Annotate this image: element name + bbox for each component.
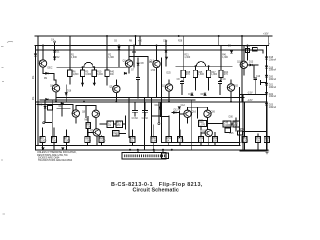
svg-text:C4 82: C4 82 <box>142 118 149 120</box>
svg-text:D10: D10 <box>155 105 160 107</box>
svg-text:100mA: 100mA <box>269 78 277 81</box>
svg-text:C12: C12 <box>181 105 186 107</box>
svg-text:100mA: 100mA <box>269 106 277 109</box>
svg-text:MB: MB <box>39 105 43 107</box>
svg-text:Q17: Q17 <box>202 131 207 133</box>
svg-text:1,800: 1,800 <box>198 74 204 76</box>
svg-text:PG: PG <box>33 96 35 100</box>
svg-text:1,300: 1,300 <box>222 57 228 59</box>
svg-text:Q13: Q13 <box>150 61 155 63</box>
svg-text:-1.5V: -1.5V <box>247 93 253 95</box>
svg-text:D12: D12 <box>59 106 64 108</box>
svg-text:1,300: 1,300 <box>184 57 190 59</box>
svg-text:TRANSISTORS ARE DEC2894: TRANSISTORS ARE DEC2894 <box>38 159 73 162</box>
svg-text:100mA: 100mA <box>269 86 277 89</box>
svg-text:D30: D30 <box>229 117 234 119</box>
svg-text:2,200: 2,200 <box>242 141 248 143</box>
svg-text:7,500: 7,500 <box>85 141 91 143</box>
svg-text:1,800: 1,800 <box>211 74 217 76</box>
svg-text:1K: 1K <box>167 141 170 143</box>
svg-text:3,000: 3,000 <box>97 74 103 76</box>
svg-text:D14: D14 <box>188 94 193 96</box>
svg-text:DEC: DEC <box>48 67 53 69</box>
svg-text:1,500: 1,500 <box>41 141 47 143</box>
svg-text:+10V: +10V <box>263 34 269 36</box>
svg-text:100mA: 100mA <box>269 95 277 98</box>
svg-text:D11: D11 <box>174 110 179 112</box>
svg-text:C10: C10 <box>256 76 261 78</box>
svg-text:D13: D13 <box>249 61 254 63</box>
svg-text:1.5K: 1.5K <box>151 70 156 72</box>
svg-text:Q26: Q26 <box>211 112 216 114</box>
svg-text:3.9K: 3.9K <box>152 141 157 143</box>
svg-text:100mA: 100mA <box>269 69 277 72</box>
svg-text:R56: R56 <box>240 129 245 131</box>
svg-text:Q18: Q18 <box>237 61 242 63</box>
svg-text:D16: D16 <box>67 91 72 93</box>
svg-text:Q14: Q14 <box>162 85 167 87</box>
svg-text:7,500: 7,500 <box>64 141 70 143</box>
svg-text:-1.8V: -1.8V <box>247 100 253 102</box>
svg-text:D25: D25 <box>167 72 172 74</box>
svg-text:100mA: 100mA <box>269 59 277 62</box>
svg-text:3,000: 3,000 <box>85 74 91 76</box>
svg-text:C3 82: C3 82 <box>132 118 139 120</box>
svg-text:1,070: 1,070 <box>199 125 205 127</box>
svg-text:C15: C15 <box>229 133 234 135</box>
svg-text:D15: D15 <box>201 94 206 96</box>
svg-text:PG: PG <box>33 75 35 79</box>
svg-text:1,500: 1,500 <box>178 141 184 143</box>
svg-text:7.5K: 7.5K <box>113 135 118 137</box>
svg-text:MB: MB <box>85 120 89 122</box>
svg-text:1,800: 1,800 <box>73 74 79 76</box>
svg-text:.01MFD: .01MFD <box>224 125 233 127</box>
svg-text:Circuit Schematic: Circuit Schematic <box>133 188 179 194</box>
svg-text:R29: R29 <box>246 46 251 48</box>
svg-text:1,300: 1,300 <box>71 57 77 59</box>
svg-text:1,300: 1,300 <box>108 57 114 59</box>
svg-text:Q16: Q16 <box>192 112 197 114</box>
svg-text:Q15: Q15 <box>234 85 239 87</box>
svg-text:R28: R28 <box>178 41 183 43</box>
svg-text:7.5K: 7.5K <box>86 127 91 129</box>
svg-text:1,500: 1,500 <box>100 141 106 143</box>
